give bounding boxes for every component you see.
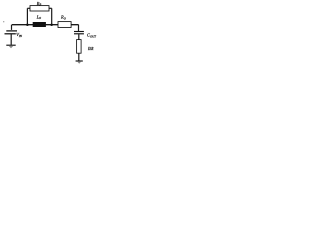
wire right branch vertical upper (78, 25, 80, 32)
background (0, 0, 100, 68)
resistor RO (outline box) (58, 22, 71, 28)
node + (faint polarity dot left of source) (3, 21, 4, 22)
capacitor COUT plate bottom (74, 33, 84, 35)
resistor RP (top box) (30, 6, 49, 11)
wire top branch right vertical (51, 8, 53, 24)
ground right bar (76, 60, 83, 62)
wire cap to ESR box (78, 34, 80, 39)
capacitor COUT plate top (74, 31, 84, 33)
svg-text:VIN: VIN (16, 32, 23, 38)
source VIN plate top (6, 30, 17, 32)
ground right arrow (77, 62, 81, 64)
wire into RP box (27, 7, 30, 9)
wire RP to corner (49, 7, 52, 9)
wire ESR to ground (78, 53, 80, 61)
wire left branch lower vertical (10, 34, 12, 45)
ground left arrow (9, 46, 14, 48)
inductor LO (filled box) (33, 22, 46, 27)
svg-text:RP: RP (36, 1, 42, 7)
wire main horizontal net (12, 24, 79, 26)
svg-text:ESR: ESR (87, 47, 94, 51)
wire left branch vertical (11, 25, 13, 30)
node junction left (26, 23, 29, 26)
wire top branch left vertical (26, 8, 28, 24)
svg-text:RO: RO (60, 15, 67, 21)
source VIN plate bottom (5, 33, 16, 35)
resistor ESR (vertical box) (77, 40, 82, 54)
node junction right (50, 23, 53, 26)
svg-text:LO: LO (36, 14, 42, 20)
ground left bar (6, 44, 15, 46)
svg-text:COUT: COUT (87, 33, 96, 39)
